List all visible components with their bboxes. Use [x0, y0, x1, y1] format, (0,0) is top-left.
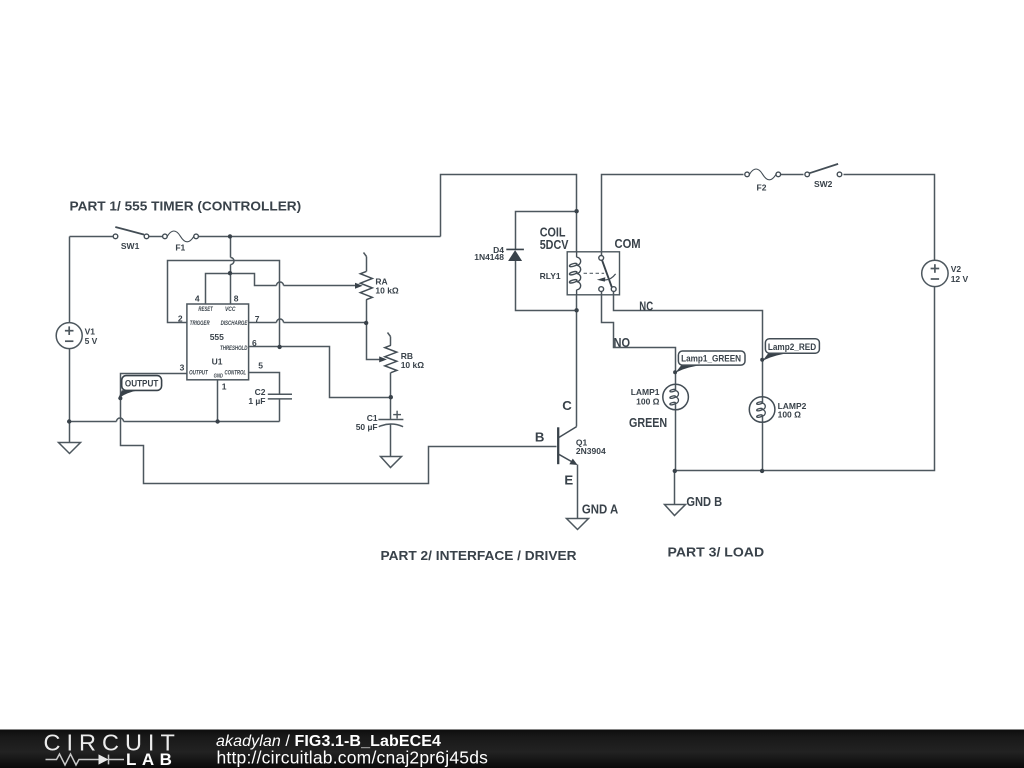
svg-text:PART 3/ LOAD: PART 3/ LOAD	[668, 545, 765, 560]
svg-text:5 V: 5 V	[85, 336, 98, 346]
svg-text:CONTROL: CONTROL	[225, 370, 247, 377]
svg-text:5: 5	[258, 360, 263, 370]
svg-text:OUTPUT: OUTPUT	[189, 370, 209, 377]
svg-text:1N4148: 1N4148	[474, 252, 504, 262]
svg-text:TRIGGER: TRIGGER	[190, 320, 210, 327]
svg-text:GND A: GND A	[582, 502, 619, 517]
svg-text:E: E	[564, 473, 573, 488]
svg-text:THRESHOLD: THRESHOLD	[220, 345, 248, 352]
svg-text:GND: GND	[214, 374, 223, 380]
svg-text:555: 555	[210, 332, 224, 342]
svg-text:2N3904: 2N3904	[576, 446, 606, 456]
svg-text:PART 1/ 555 TIMER (CONTROLLER): PART 1/ 555 TIMER (CONTROLLER)	[70, 199, 302, 214]
svg-text:12 V: 12 V	[951, 274, 969, 284]
svg-text:10 kΩ: 10 kΩ	[375, 286, 399, 296]
svg-text:Lamp2_RED: Lamp2_RED	[768, 342, 817, 352]
svg-text:V1: V1	[85, 326, 96, 336]
svg-text:NO: NO	[614, 335, 631, 350]
svg-text:GREEN: GREEN	[629, 415, 667, 430]
svg-text:RESET: RESET	[198, 306, 213, 313]
svg-text:SW1: SW1	[121, 241, 140, 251]
svg-text:LAB: LAB	[126, 750, 177, 768]
svg-text:SW2: SW2	[814, 179, 833, 189]
svg-text:GND B: GND B	[686, 494, 722, 509]
svg-text:2: 2	[178, 313, 183, 323]
svg-text:RLY1: RLY1	[540, 271, 561, 281]
svg-text:50 µF: 50 µF	[356, 422, 378, 432]
svg-text:4: 4	[195, 293, 200, 303]
svg-text:6: 6	[252, 338, 257, 348]
svg-text:U1: U1	[212, 356, 223, 366]
svg-text:10 kΩ: 10 kΩ	[401, 360, 425, 370]
svg-text:OUTPUT: OUTPUT	[125, 379, 159, 389]
svg-text:NC: NC	[639, 298, 653, 313]
svg-text:7: 7	[255, 314, 260, 324]
svg-text:B: B	[535, 429, 545, 444]
svg-text:100 Ω: 100 Ω	[636, 396, 660, 406]
svg-text:PART 2/ INTERFACE / DRIVER: PART 2/ INTERFACE / DRIVER	[381, 548, 577, 563]
svg-text:DISCHARGE: DISCHARGE	[221, 320, 248, 327]
svg-text:F1: F1	[175, 242, 185, 252]
svg-text:F2: F2	[757, 182, 767, 192]
svg-text:http://circuitlab.com/cnaj2pr6: http://circuitlab.com/cnaj2pr6j45ds	[217, 748, 489, 768]
svg-text:COM: COM	[615, 236, 641, 251]
svg-text:8: 8	[234, 293, 239, 303]
svg-text:5DCV: 5DCV	[540, 237, 569, 252]
svg-text:C: C	[562, 398, 572, 413]
svg-text:VCC: VCC	[225, 306, 236, 313]
svg-text:1 µF: 1 µF	[248, 396, 265, 406]
svg-text:Lamp1_GREEN: Lamp1_GREEN	[681, 354, 741, 364]
svg-text:100 Ω: 100 Ω	[778, 410, 802, 420]
svg-text:V2: V2	[951, 264, 962, 274]
svg-text:3: 3	[180, 363, 185, 373]
svg-text:1: 1	[222, 381, 227, 391]
